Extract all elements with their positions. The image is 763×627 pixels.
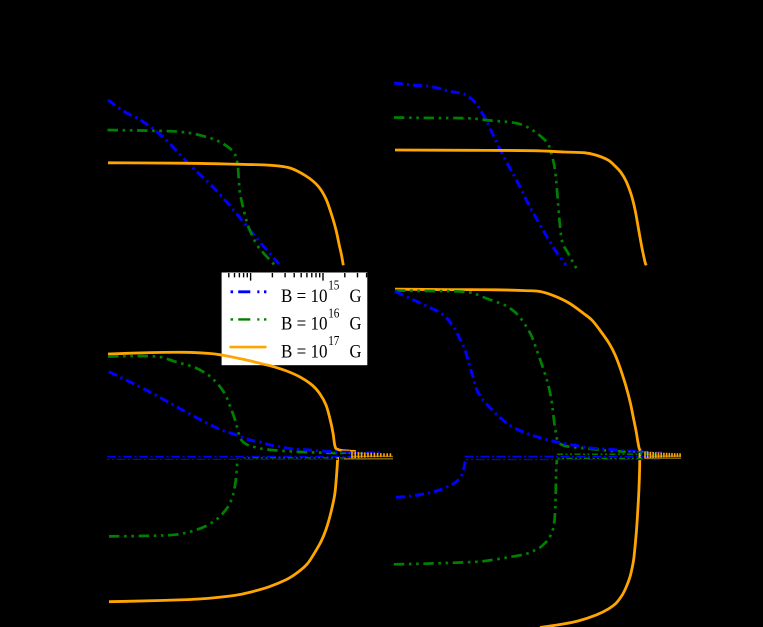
bottom-right olive converged line 2: [650, 455, 681, 457]
legend sample line B=10^15: [231, 290, 267, 293]
svg-text:G: G: [350, 314, 362, 335]
bottom-right upper branch B=1e15 (blue): [395, 292, 648, 453]
bottom-right blue zero line lower: [466, 459, 660, 461]
svg-text:B = 10: B = 10: [281, 341, 328, 362]
top-right curve B=1e16 (green dash-dot-dot): [394, 118, 577, 270]
bottom-right lower branch B=1e16 (green): [394, 460, 557, 565]
top-right curve B=1e17 (orange solid): [395, 150, 646, 265]
top-left curve B=1e16 (green dash-dot-dot): [108, 130, 276, 266]
bottom-right blue zero line upper: [465, 455, 653, 457]
bottom-left upper branch B=1e16 (green): [108, 356, 340, 453]
bottom-right upper branch B=1e17 (orange): [395, 289, 641, 451]
bottom-left orange oscillation bars: [352, 452, 390, 459]
bottom-left blue zero line upper: [107, 456, 362, 458]
top-left curve B=1e15 (blue dash-dot): [108, 100, 279, 264]
bottom-right green zero line lower: [557, 457, 652, 459]
bottom-left olive converged line: [344, 458, 393, 460]
bottom-left blue asymptote tail: [350, 451, 380, 453]
bottom-right lower branch B=1e17 (orange): [540, 453, 640, 627]
bottom-left olive converged line 2: [352, 455, 393, 457]
legend box: [222, 273, 368, 366]
bottom-left green asymptote tail: [340, 452, 372, 454]
svg-text:17: 17: [328, 333, 339, 348]
bottom-left green zero line: [243, 457, 360, 459]
bottom-left lower branch B=1e16 (green): [109, 459, 238, 537]
bottom-left upper branch B=1e15 (blue): [109, 372, 350, 453]
bottom-left lower branch B=1e17 (orange): [109, 456, 338, 602]
svg-text:B = 10: B = 10: [281, 286, 328, 307]
top-right curve B=1e15 (blue dash-dot): [394, 83, 566, 265]
top-left curve B=1e17 (orange solid): [108, 163, 343, 265]
svg-text:G: G: [350, 341, 362, 362]
bottom-right green asymptote tail: [620, 451, 650, 453]
axis major ticks over legend: [251, 273, 323, 281]
axis minor ticks over legend: [229, 273, 367, 277]
bottom-left blue zero line lower: [107, 458, 370, 460]
svg-text:B = 10: B = 10: [281, 314, 328, 335]
bottom-right blue asymptote tail: [640, 451, 662, 453]
bottom-right upper branch B=1e16 (green): [395, 291, 625, 452]
svg-text:G: G: [350, 286, 362, 307]
bottom-right olive converged line: [645, 457, 681, 459]
svg-text:15: 15: [328, 278, 339, 293]
bottom-right green zero line upper: [557, 453, 655, 455]
legend sample line B=10^17: [230, 346, 267, 349]
bottom-right lower branch B=1e15 (blue): [396, 460, 466, 498]
bottom-right orange oscillation bars: [645, 451, 680, 458]
svg-text:16: 16: [328, 305, 339, 320]
legend sample line B=10^16: [231, 318, 267, 320]
bottom-left upper branch B=1e17 (orange): [108, 352, 356, 451]
